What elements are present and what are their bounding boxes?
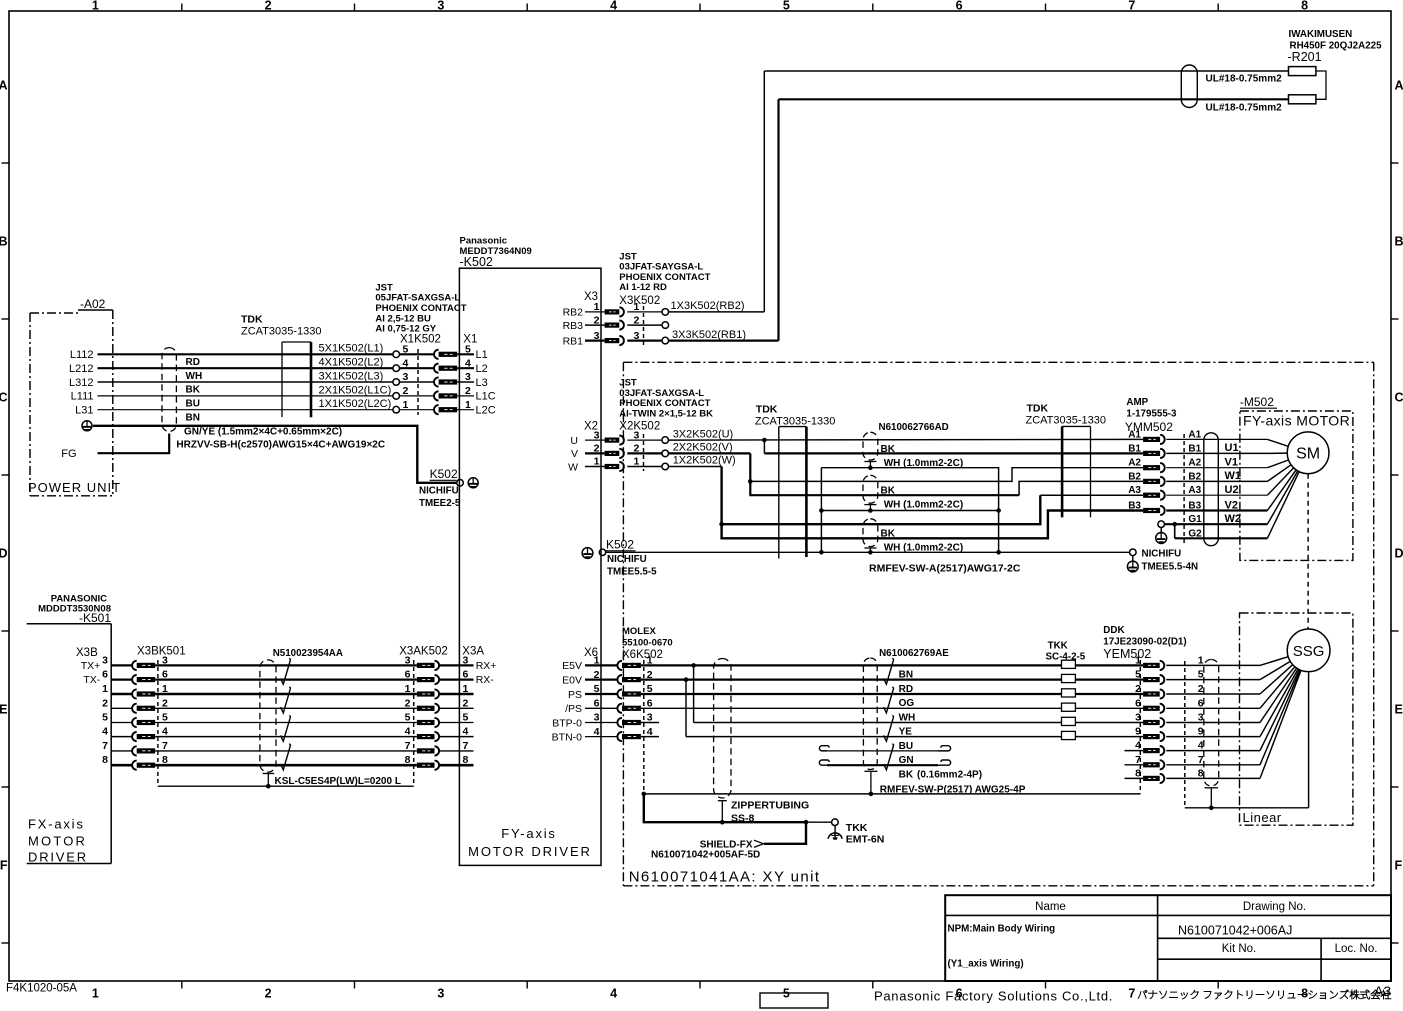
svg-text:17JE23090-02(D1): 17JE23090-02(D1) — [1103, 637, 1186, 648]
svg-text:Panasonic Factory Solutions: Panasonic Factory Solutions Co.,Ltd. — [874, 989, 1113, 1004]
svg-text:B1: B1 — [1128, 443, 1141, 454]
svg-text:V2: V2 — [1225, 499, 1238, 511]
svg-text:7: 7 — [463, 740, 469, 752]
svg-text:X2: X2 — [584, 420, 598, 432]
svg-text:PS: PS — [568, 689, 582, 701]
svg-text:A1: A1 — [1128, 429, 1141, 440]
svg-text:-A02: -A02 — [80, 297, 106, 311]
svg-text:RX-: RX- — [476, 674, 495, 686]
svg-text:YE: YE — [899, 727, 913, 738]
svg-text:5: 5 — [594, 683, 600, 695]
svg-text:8: 8 — [1301, 0, 1308, 13]
svg-text:U2: U2 — [1225, 484, 1239, 496]
svg-text:3: 3 — [437, 0, 444, 13]
svg-text:F: F — [0, 859, 8, 873]
svg-text:1X2K502(W): 1X2K502(W) — [673, 455, 736, 467]
svg-text:BK: BK — [899, 769, 914, 780]
svg-text:3: 3 — [1198, 712, 1204, 724]
svg-text:4: 4 — [465, 357, 471, 369]
svg-text:FY-axis MOTOR: FY-axis MOTOR — [1243, 413, 1350, 429]
svg-text:1X1K502(L2C): 1X1K502(L2C) — [319, 398, 392, 410]
svg-text:AMP: AMP — [1126, 397, 1148, 408]
svg-text:1: 1 — [594, 456, 600, 468]
svg-text:V1: V1 — [1225, 457, 1238, 469]
svg-text:TMEE2-5: TMEE2-5 — [419, 498, 461, 509]
svg-text:U: U — [570, 435, 578, 447]
svg-text:7: 7 — [1135, 754, 1141, 766]
svg-text:L112: L112 — [70, 349, 94, 361]
svg-text:5X1K502(L1): 5X1K502(L1) — [319, 343, 384, 355]
svg-text:-K502: -K502 — [460, 255, 493, 269]
svg-text:2: 2 — [405, 697, 411, 709]
svg-text:X1: X1 — [463, 334, 477, 346]
svg-text:2: 2 — [463, 697, 469, 709]
svg-text:6: 6 — [1135, 697, 1141, 709]
svg-text:3: 3 — [102, 654, 108, 666]
svg-text:N610071042+005AF-5D: N610071042+005AF-5D — [651, 850, 760, 861]
svg-text:K502: K502 — [430, 467, 458, 481]
svg-text:BK: BK — [881, 528, 896, 539]
svg-text:6: 6 — [594, 698, 600, 710]
svg-text:C: C — [0, 391, 8, 405]
svg-text:2: 2 — [265, 987, 272, 1001]
svg-text:7: 7 — [1128, 0, 1135, 13]
svg-text:FX-axis: FX-axis — [28, 817, 85, 832]
svg-text:5: 5 — [1135, 669, 1141, 681]
svg-text:D: D — [0, 547, 8, 561]
svg-text:BK: BK — [881, 444, 896, 455]
svg-text:GN: GN — [899, 755, 914, 766]
svg-text:AI-TWIN 2×1,5-12 BK: AI-TWIN 2×1,5-12 BK — [619, 408, 713, 419]
svg-text:7: 7 — [162, 740, 168, 752]
svg-text:ZCAT3035-1330: ZCAT3035-1330 — [755, 416, 836, 428]
svg-text:RB3: RB3 — [563, 320, 584, 332]
svg-text:X1K502: X1K502 — [400, 334, 441, 346]
svg-text:2: 2 — [265, 0, 272, 13]
svg-text:D: D — [1395, 547, 1403, 561]
svg-text:E0V: E0V — [562, 674, 582, 686]
svg-text:A2: A2 — [1128, 458, 1141, 469]
svg-text:Name: Name — [1035, 901, 1066, 913]
svg-text:AI 1-12 RD: AI 1-12 RD — [619, 282, 667, 293]
svg-text:X3A: X3A — [462, 646, 484, 658]
svg-text:V: V — [571, 448, 578, 460]
svg-text:-R201: -R201 — [1288, 50, 1322, 64]
svg-text:MOTOR: MOTOR — [28, 834, 87, 849]
svg-text:5: 5 — [783, 987, 790, 1001]
svg-text:N510023954AA: N510023954AA — [273, 648, 343, 659]
svg-text:6: 6 — [102, 669, 108, 681]
svg-text:2: 2 — [1198, 683, 1204, 695]
svg-text:Kit No.: Kit No. — [1222, 943, 1257, 955]
svg-text:B: B — [1395, 235, 1403, 249]
svg-text:3: 3 — [594, 712, 600, 724]
svg-text:A2: A2 — [1188, 458, 1201, 469]
svg-text:X2K502: X2K502 — [619, 420, 660, 432]
svg-text:B3: B3 — [1128, 501, 1141, 512]
svg-text:1: 1 — [405, 683, 411, 695]
svg-text:3X1K502(L3): 3X1K502(L3) — [319, 370, 384, 382]
svg-text:SM: SM — [1296, 446, 1320, 463]
svg-text:L31: L31 — [75, 405, 93, 417]
svg-text:L2C: L2C — [476, 405, 496, 417]
svg-text:YEM502: YEM502 — [1103, 647, 1151, 661]
svg-text:X3: X3 — [584, 291, 598, 303]
svg-text:OG: OG — [899, 698, 915, 709]
svg-text:4: 4 — [610, 987, 617, 1001]
svg-text:L1: L1 — [476, 349, 488, 361]
svg-text:3: 3 — [437, 987, 444, 1001]
svg-text:2: 2 — [162, 697, 168, 709]
svg-text:7: 7 — [102, 740, 108, 752]
svg-text:L3: L3 — [476, 377, 488, 389]
svg-text:/PS: /PS — [565, 703, 582, 715]
svg-text:ZCAT3035-1330: ZCAT3035-1330 — [241, 326, 322, 338]
svg-text:TDK: TDK — [1027, 403, 1049, 415]
svg-text:ZIPPERTUBING: ZIPPERTUBING — [731, 800, 809, 812]
svg-text:N610062769AE: N610062769AE — [879, 648, 949, 659]
svg-text:5: 5 — [405, 712, 411, 724]
svg-text:1-179555-3: 1-179555-3 — [1126, 409, 1177, 420]
svg-text:MOLEX: MOLEX — [622, 626, 656, 637]
svg-text:A: A — [0, 79, 8, 93]
svg-text:SSG: SSG — [1293, 643, 1325, 660]
svg-text:1: 1 — [92, 0, 99, 13]
svg-text:FG: FG — [61, 448, 76, 460]
svg-text:9: 9 — [1198, 726, 1204, 738]
svg-text:UL#18-0.75mm2: UL#18-0.75mm2 — [1206, 103, 1283, 114]
svg-text:3: 3 — [465, 371, 471, 383]
svg-text:UL#18-0.75mm2: UL#18-0.75mm2 — [1206, 74, 1283, 85]
svg-text:4X1K502(L2): 4X1K502(L2) — [319, 357, 384, 369]
svg-text:2: 2 — [594, 669, 600, 681]
svg-text:IWAKIMUSEN: IWAKIMUSEN — [1289, 29, 1353, 40]
svg-text:NPM:Main Body Wiring: NPM:Main Body Wiring — [948, 924, 1056, 935]
svg-text:BN: BN — [186, 412, 200, 423]
svg-text:3X2K502(U): 3X2K502(U) — [673, 428, 734, 440]
svg-text:POWER UNIT: POWER UNIT — [28, 480, 121, 495]
svg-text:4: 4 — [594, 726, 600, 738]
svg-text:U1: U1 — [1225, 442, 1239, 454]
svg-text:WH: WH — [186, 371, 203, 382]
svg-text:L1C: L1C — [476, 391, 496, 403]
svg-text:C: C — [1395, 391, 1403, 405]
svg-text:8: 8 — [102, 754, 108, 766]
svg-text:1X3K502(RB2): 1X3K502(RB2) — [671, 300, 745, 312]
svg-text:4: 4 — [162, 726, 168, 738]
svg-text:X3B: X3B — [76, 647, 98, 659]
svg-text:L212: L212 — [69, 363, 93, 375]
svg-text:L2: L2 — [476, 363, 488, 375]
svg-text:1: 1 — [1198, 654, 1204, 666]
svg-text:5: 5 — [162, 712, 168, 724]
svg-text:A: A — [1395, 79, 1403, 93]
svg-text:BTP-0: BTP-0 — [552, 717, 582, 729]
svg-text:-M502: -M502 — [1240, 395, 1274, 409]
svg-text:RMFEV-SW-A(2517)AWG17-2C: RMFEV-SW-A(2517)AWG17-2C — [869, 563, 1021, 575]
svg-text:Drawing No.: Drawing No. — [1243, 901, 1306, 913]
svg-text:F4K1020-05A: F4K1020-05A — [6, 983, 77, 995]
svg-text:5: 5 — [463, 712, 469, 724]
svg-text:EMT-6N: EMT-6N — [846, 834, 885, 846]
svg-text:2X1K502(L1C): 2X1K502(L1C) — [319, 384, 392, 396]
svg-text:1: 1 — [92, 987, 99, 1001]
svg-text:E: E — [1395, 703, 1403, 717]
svg-text:3: 3 — [594, 330, 600, 342]
svg-text:BU: BU — [899, 741, 913, 752]
svg-text:BK: BK — [186, 385, 201, 396]
svg-text:N610071042+006AJ: N610071042+006AJ — [1178, 924, 1292, 938]
svg-text:N610062766AD: N610062766AD — [879, 422, 949, 433]
svg-text:7: 7 — [1128, 987, 1135, 1001]
svg-text:GN/YE (1.5mm2×4C+0.65mm×2C): GN/YE (1.5mm2×4C+0.65mm×2C) — [184, 426, 342, 437]
svg-text:6: 6 — [956, 0, 963, 13]
svg-text:5: 5 — [783, 0, 790, 13]
svg-text:X3K502: X3K502 — [619, 295, 660, 307]
svg-text:E: E — [0, 703, 8, 717]
svg-text:9: 9 — [1135, 726, 1141, 738]
svg-text:TMEE5.5-5: TMEE5.5-5 — [607, 567, 657, 578]
svg-text:1: 1 — [102, 683, 108, 695]
svg-text:TDK: TDK — [756, 404, 778, 416]
svg-text:1: 1 — [465, 399, 471, 411]
svg-text:NICHIFU: NICHIFU — [419, 486, 459, 497]
svg-text:7: 7 — [405, 740, 411, 752]
svg-text:W: W — [568, 461, 578, 473]
svg-text:(0.16mm2-4P): (0.16mm2-4P) — [917, 769, 982, 780]
svg-text:HRZVV-SB-H(c2570)AWG15×4C+AWG1: HRZVV-SB-H(c2570)AWG15×4C+AWG19×2C — [176, 439, 385, 450]
svg-text:A3: A3 — [1188, 485, 1201, 496]
svg-text:4: 4 — [102, 726, 108, 738]
svg-text:4: 4 — [1135, 740, 1141, 752]
svg-text:W1: W1 — [1225, 470, 1242, 482]
svg-text:ZCAT3035-1330: ZCAT3035-1330 — [1026, 415, 1107, 427]
svg-text:TMEE5.5-4N: TMEE5.5-4N — [1142, 562, 1199, 573]
svg-text:TKK: TKK — [846, 822, 868, 834]
svg-text:(Y1_axis Wiring): (Y1_axis Wiring) — [948, 959, 1024, 970]
svg-text:FY-axis: FY-axis — [501, 826, 556, 841]
svg-text:DRIVER: DRIVER — [28, 850, 88, 865]
svg-text:WH (1.0mm2-2C): WH (1.0mm2-2C) — [884, 543, 963, 554]
svg-text:RD: RD — [186, 357, 200, 368]
svg-text:BK: BK — [881, 486, 896, 497]
svg-text:K502: K502 — [606, 538, 634, 552]
svg-text:Linear: Linear — [1243, 810, 1282, 825]
svg-text:RB2: RB2 — [563, 307, 584, 319]
svg-text:2: 2 — [594, 314, 600, 326]
svg-text:RB1: RB1 — [563, 335, 584, 347]
svg-text:8: 8 — [1301, 987, 1308, 1001]
svg-text:-K501: -K501 — [79, 611, 111, 625]
svg-text:BTN-0: BTN-0 — [552, 731, 582, 743]
svg-text:L111: L111 — [71, 391, 94, 403]
svg-text:N610071041AA: XY unit: N610071041AA: XY unit — [629, 869, 821, 886]
svg-text:6: 6 — [1198, 697, 1204, 709]
svg-text:2: 2 — [102, 697, 108, 709]
svg-text:7: 7 — [1198, 754, 1204, 766]
svg-text:TKK: TKK — [1048, 641, 1068, 652]
svg-text:4: 4 — [405, 726, 411, 738]
svg-text:X6K502: X6K502 — [622, 649, 663, 661]
svg-text:2: 2 — [594, 443, 600, 455]
svg-text:55100-0670: 55100-0670 — [622, 638, 673, 649]
svg-text:DDK: DDK — [1103, 625, 1124, 636]
svg-text:W2: W2 — [1225, 513, 1242, 525]
svg-text:4: 4 — [610, 0, 617, 13]
svg-text:5: 5 — [102, 712, 108, 724]
svg-text:NICHIFU: NICHIFU — [607, 554, 647, 565]
svg-text:3: 3 — [1135, 712, 1141, 724]
svg-text:8: 8 — [1198, 767, 1204, 779]
svg-text:WH (1.0mm2-2C): WH (1.0mm2-2C) — [884, 458, 963, 469]
svg-text:2: 2 — [465, 385, 471, 397]
svg-text:F: F — [1395, 859, 1403, 873]
svg-text:2X2K502(V): 2X2K502(V) — [673, 442, 733, 454]
svg-text:5: 5 — [1198, 669, 1204, 681]
svg-text:TX+: TX+ — [81, 660, 101, 672]
svg-text:Panasonic: Panasonic — [460, 236, 508, 247]
svg-text:MOTOR DRIVER: MOTOR DRIVER — [468, 844, 592, 859]
svg-text:X3BK501: X3BK501 — [137, 646, 186, 658]
svg-text:WH: WH — [899, 713, 916, 724]
svg-text:BN: BN — [899, 670, 913, 681]
svg-text:2: 2 — [1135, 683, 1141, 695]
svg-text:E5V: E5V — [562, 660, 582, 672]
svg-text:8: 8 — [1135, 767, 1141, 779]
svg-text:NICHIFU: NICHIFU — [1142, 549, 1182, 560]
svg-text:KSL-C5ES4P(LW)L=0200 L: KSL-C5ES4P(LW)L=0200 L — [275, 776, 401, 787]
svg-text:RD: RD — [899, 684, 913, 695]
svg-text:6: 6 — [405, 669, 411, 681]
svg-text:X3AK502: X3AK502 — [399, 646, 448, 658]
svg-text:L312: L312 — [69, 377, 93, 389]
svg-text:BU: BU — [186, 399, 200, 410]
svg-text:3X3K502(RB1): 3X3K502(RB1) — [672, 329, 746, 341]
svg-text:4: 4 — [463, 726, 469, 738]
svg-text:B2: B2 — [1128, 471, 1141, 482]
svg-text:B: B — [0, 235, 8, 249]
svg-text:Loc. No.: Loc. No. — [1335, 943, 1378, 955]
svg-text:RX+: RX+ — [476, 660, 497, 672]
svg-text:8: 8 — [405, 754, 411, 766]
svg-text:TDK: TDK — [241, 314, 263, 326]
svg-text:WH (1.0mm2-2C): WH (1.0mm2-2C) — [884, 500, 963, 511]
svg-text:RMFEV-SW-P(2517) AWG25-4P: RMFEV-SW-P(2517) AWG25-4P — [880, 785, 1026, 796]
svg-text:X6: X6 — [584, 647, 598, 659]
svg-text:TX-: TX- — [83, 674, 100, 686]
svg-text:A3: A3 — [1128, 485, 1141, 496]
svg-text:4: 4 — [1198, 740, 1204, 752]
svg-text:A1: A1 — [1188, 429, 1201, 440]
